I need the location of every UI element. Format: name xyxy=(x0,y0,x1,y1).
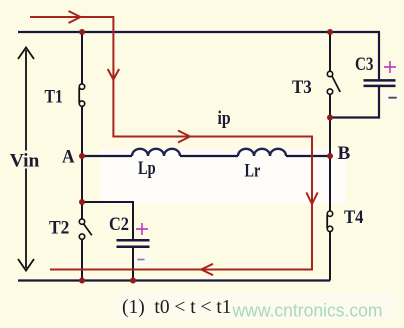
switch T1 top contact circle xyxy=(79,84,84,89)
C3 plus sign xyxy=(384,61,396,73)
svg-text:Vin: Vin xyxy=(10,150,40,171)
wire middle rail A to Lp xyxy=(81,155,132,157)
wire middle rail Lr to B xyxy=(286,155,330,157)
wire left branch top (junction to T1) xyxy=(81,32,83,84)
switch T4 (closed) bracket xyxy=(327,215,330,227)
wire middle rail Lp to Lr xyxy=(180,155,238,157)
capacitor C2 top plate xyxy=(117,239,150,242)
current arrow left vertical (down) xyxy=(108,69,119,80)
wire left branch T2 to bottom rail xyxy=(81,239,83,281)
wire C2 to bottom rail xyxy=(132,248,134,281)
switch T2 (open) lever xyxy=(84,224,92,235)
switch T3 bottom contact circle xyxy=(327,89,332,94)
inductor Lr xyxy=(238,149,286,156)
switch T2 top contact circle xyxy=(79,219,84,224)
svg-text:A: A xyxy=(62,147,75,168)
wire C3 bottom to junction xyxy=(330,87,379,118)
Vin arrow line xyxy=(25,50,27,268)
switch T4 top contact circle xyxy=(327,211,332,216)
current arrow right vertical (down) xyxy=(306,192,317,204)
Vin arrow head top xyxy=(18,48,34,60)
svg-text:T1: T1 xyxy=(45,86,63,107)
white chip behind C3 minus xyxy=(384,94,402,104)
wire C3 branch down from top rail xyxy=(378,32,380,79)
svg-text:(1) t0 < t < t1: (1) t0 < t < t1 xyxy=(122,296,232,318)
C2 minus sign xyxy=(137,259,144,261)
junction dot bottom C2 xyxy=(130,278,136,284)
junction dot C2 branch xyxy=(79,199,85,205)
junction dot C3 bottom xyxy=(327,115,333,121)
current path red loop xyxy=(30,17,312,270)
switch T2 bottom contact circle xyxy=(79,234,84,239)
node A dot xyxy=(79,153,85,159)
svg-text:C3: C3 xyxy=(355,54,374,75)
C2 plus sign xyxy=(136,223,148,235)
svg-text:C2: C2 xyxy=(109,214,129,235)
Vin arrow head bottom xyxy=(18,259,34,271)
current arrow bottom (left) xyxy=(201,264,213,275)
wire right branch T4 to bottom rail xyxy=(329,231,331,280)
svg-text:Lr: Lr xyxy=(245,161,261,182)
svg-text:T2: T2 xyxy=(49,218,69,239)
switch T1 (closed) bracket xyxy=(79,88,82,101)
white band under caption xyxy=(115,292,395,319)
svg-text:www.cntronics.com: www.cntronics.com xyxy=(232,300,383,321)
svg-text:Lp: Lp xyxy=(138,158,156,179)
switch T3 top contact circle xyxy=(327,71,332,76)
node B dot xyxy=(327,153,333,159)
capacitor C3 bottom plate xyxy=(364,85,396,88)
C3 minus sign xyxy=(388,97,396,99)
svg-text:B: B xyxy=(338,143,351,164)
junction dot top left xyxy=(79,29,85,35)
wire bottom rail xyxy=(18,279,330,281)
svg-text:ip: ip xyxy=(218,108,231,129)
svg-text:T4: T4 xyxy=(344,207,364,228)
inductor Lp xyxy=(132,149,180,156)
switch T1 bottom contact circle xyxy=(79,101,84,106)
wire right branch top (junction to T3) xyxy=(329,32,331,71)
svg-text:T3: T3 xyxy=(292,77,312,98)
wire left branch T1 to T2 xyxy=(81,106,83,219)
current arrow top (right) xyxy=(69,11,81,23)
switch T3 (open) lever xyxy=(332,77,340,93)
white chip behind C2 minus xyxy=(134,254,150,266)
junction dot bottom T2 xyxy=(79,278,85,284)
switch T4 bottom contact circle xyxy=(327,226,332,231)
white patch under middle xyxy=(100,149,346,204)
current arrow middle (right) xyxy=(178,131,190,143)
capacitor C3 top plate xyxy=(364,79,396,82)
capacitor C2 bottom plate xyxy=(117,245,150,248)
wire right branch T3 to B and T4 xyxy=(329,94,331,211)
wire top rail xyxy=(18,31,380,33)
wire C2 branch horizontal xyxy=(82,202,133,239)
junction dot top right xyxy=(327,29,333,35)
